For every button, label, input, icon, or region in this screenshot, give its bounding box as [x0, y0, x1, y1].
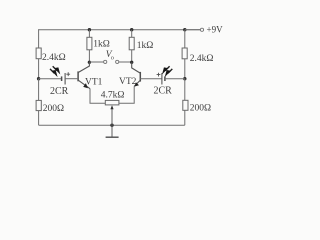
- node collector VT2 junction dot: [130, 61, 133, 64]
- svg-text:1kΩ: 1kΩ: [93, 39, 110, 49]
- wire 1k right to collector node: [131, 50, 133, 63]
- wire rail to 1k right: [131, 30, 133, 38]
- transistor VT1: [78, 62, 103, 88]
- wire left branch from rail to R 2.4k: [38, 29, 40, 48]
- terminal +9V: [200, 25, 223, 35]
- svg-text:200Ω: 200Ω: [190, 104, 211, 114]
- resistor 1k right: [129, 37, 153, 51]
- svg-text:2.4kΩ: 2.4kΩ: [190, 54, 214, 64]
- svg-text:2CR: 2CR: [154, 86, 173, 97]
- transistor VT2: [119, 62, 140, 87]
- resistor 200 ohm right: [183, 100, 211, 113]
- wire photocell left to base VT1: [65, 78, 78, 80]
- wire 2.4k right to node B: [184, 59, 186, 79]
- wire output terminal to collector VT2: [119, 61, 132, 63]
- wire rail to 1k left: [88, 30, 90, 38]
- node A junction dot: [37, 77, 40, 80]
- svg-text:o: o: [111, 56, 114, 62]
- wire 2.4k left to node A: [38, 59, 40, 79]
- svg-text:2CR: 2CR: [50, 86, 69, 97]
- wire 1k left to collector node: [88, 50, 90, 63]
- resistor 2.4k right: [182, 48, 213, 64]
- wire photocell right to node B: [165, 78, 185, 80]
- wire 200 ohm right to bottom rail: [184, 110, 186, 125]
- ground: [106, 125, 119, 137]
- node top of R1k right junction dot: [130, 28, 133, 31]
- photocell 2CR left: [50, 66, 70, 97]
- terminal output right: [116, 60, 119, 63]
- resistor 1k left: [87, 37, 110, 50]
- wire collector VT1 to output terminal: [89, 61, 103, 63]
- svg-text:2.4kΩ: 2.4kΩ: [42, 53, 66, 63]
- resistor 200 ohm left: [36, 100, 64, 114]
- wire node B to 200 ohm right: [184, 79, 186, 101]
- svg-text:+9V: +9V: [207, 25, 224, 35]
- label Vo: [106, 50, 114, 61]
- svg-text:4.7kΩ: 4.7kΩ: [101, 90, 125, 100]
- node ground junction dot: [110, 124, 113, 127]
- wire rail to +9V terminal: [185, 29, 201, 31]
- node collector VT1 junction dot: [88, 61, 91, 64]
- svg-text:200Ω: 200Ω: [43, 104, 64, 114]
- wire potentiometer wiper arrow: [110, 105, 113, 125]
- wire VT2 emitter to potentiometer: [119, 86, 134, 103]
- wire top +9V rail: [39, 29, 201, 31]
- wire rail to 2.4k right: [184, 30, 186, 48]
- node top of R1k left junction dot: [88, 28, 91, 31]
- wire VT1 emitter to potentiometer: [90, 89, 105, 104]
- wire node A to photocell left: [39, 78, 62, 80]
- resistor 2.4k left: [36, 48, 66, 63]
- wire bottom ground rail: [39, 124, 185, 126]
- node B junction dot: [183, 77, 186, 80]
- wire 200 ohm left to bottom rail: [38, 111, 40, 126]
- terminal output left: [104, 60, 107, 63]
- photocell 2CR right: [154, 66, 173, 96]
- wire node A to 200 ohm left: [38, 79, 40, 101]
- wire base VT2 to photocell right: [140, 78, 162, 80]
- potentiometer RP 4.7k: [101, 90, 125, 105]
- svg-text:1kΩ: 1kΩ: [137, 41, 154, 51]
- node top of 2.4k right junction dot: [183, 28, 186, 31]
- svg-text:VT2: VT2: [119, 77, 137, 87]
- svg-text:VT1: VT1: [85, 77, 103, 87]
